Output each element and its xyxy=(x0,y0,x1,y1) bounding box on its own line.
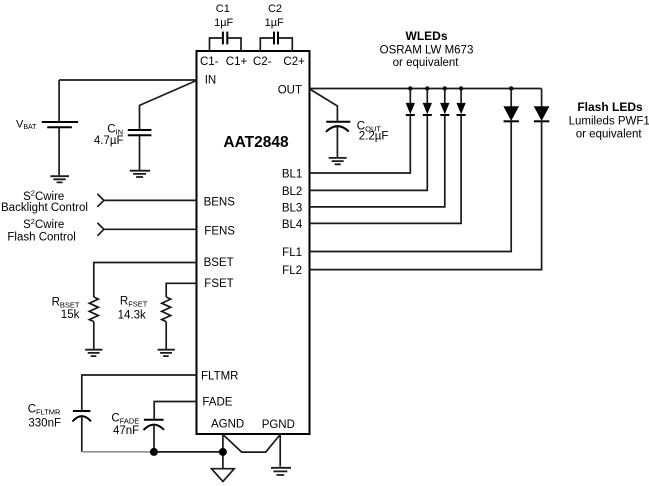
svg-text:C1-: C1- xyxy=(200,56,219,68)
junction node CFADE/AGND wire xyxy=(150,448,158,456)
svg-text:BSET: BSET xyxy=(204,257,234,269)
svg-text:C1+: C1+ xyxy=(226,56,248,68)
wire RBSET to ground xyxy=(93,322,95,349)
wire OUT rail xyxy=(310,88,542,90)
svg-text:FL1: FL1 xyxy=(282,247,302,259)
wire CFLTMR to junction (gray) xyxy=(82,451,154,453)
svg-text:C2-: C2- xyxy=(253,56,272,68)
ground signal triangle (AGND) xyxy=(212,469,235,482)
wire FADE to CFADE xyxy=(154,402,196,420)
capacitor CIN xyxy=(128,130,152,170)
resistor RFSET xyxy=(162,297,171,322)
svg-text:BL3: BL3 xyxy=(282,203,302,215)
label C2 value xyxy=(265,3,284,29)
svg-text:FADE: FADE xyxy=(202,396,232,408)
svg-text:or equivalent: or equivalent xyxy=(393,57,460,69)
svg-text:1µF: 1µF xyxy=(265,17,284,29)
label WLEDs heading xyxy=(380,29,474,69)
label COUT value xyxy=(357,120,389,142)
label Flash LEDs heading xyxy=(569,100,649,140)
input arrow FENS xyxy=(97,223,196,236)
ground (RFSET) xyxy=(158,350,175,356)
capacitor CFLTMR xyxy=(73,411,92,452)
svg-text:BL2: BL2 xyxy=(282,186,302,198)
flash LED D5 xyxy=(310,89,519,252)
svg-text:OSRAM LW M673: OSRAM LW M673 xyxy=(380,45,474,57)
WLED D4 xyxy=(310,89,466,224)
svg-text:S2Cwire: S2Cwire xyxy=(23,189,64,203)
WLED D3 xyxy=(310,89,450,207)
ground (RBSET) xyxy=(85,350,102,356)
label S2Cwire backlight xyxy=(1,189,88,215)
svg-text:PGND: PGND xyxy=(262,419,295,431)
svg-text:BL1: BL1 xyxy=(282,169,302,181)
wire OUT to COUT (diagonal) xyxy=(310,89,338,121)
svg-text:Flash LEDs: Flash LEDs xyxy=(577,100,643,114)
input arrow BENS xyxy=(97,194,196,207)
label S2Cwire flash xyxy=(7,217,75,244)
svg-text:4.7µF: 4.7µF xyxy=(94,135,124,147)
wire junction to AGND xyxy=(154,451,223,453)
wire BSET to RBSET xyxy=(94,263,197,298)
wire FSET to RFSET xyxy=(166,283,196,297)
svg-text:AAT2848: AAT2848 xyxy=(223,134,289,151)
svg-text:FLTMR: FLTMR xyxy=(201,370,238,382)
node on rail WLED1 xyxy=(408,86,412,90)
wire FLTMR to CFLTMR xyxy=(82,375,197,410)
wire IN to CIN (diagonal) xyxy=(140,81,197,130)
svg-text:BENS: BENS xyxy=(204,196,236,208)
junction node AGND xyxy=(219,448,227,456)
WLED D1 xyxy=(310,89,415,174)
label CIN value xyxy=(94,123,124,147)
wire RFSET to ground xyxy=(165,322,167,349)
resistor RBSET xyxy=(89,297,98,322)
node on rail flash LED1 xyxy=(509,86,513,90)
svg-text:OUT: OUT xyxy=(278,84,302,96)
svg-text:14.3k: 14.3k xyxy=(118,309,146,321)
ground (VBAT) xyxy=(50,176,69,182)
svg-text:C1: C1 xyxy=(216,3,230,15)
capacitor C1 xyxy=(210,32,242,51)
svg-text:2.2µF: 2.2µF xyxy=(359,131,389,143)
wire AGND down xyxy=(222,434,224,468)
svg-text:FENS: FENS xyxy=(204,225,235,237)
svg-text:IN: IN xyxy=(205,75,217,87)
battery VBAT xyxy=(42,80,78,175)
capacitor CFADE xyxy=(144,420,165,452)
ground (CIN) xyxy=(130,171,150,177)
wire AGND to PGND xyxy=(223,435,280,453)
capacitor C2 xyxy=(260,32,292,51)
svg-text:C2+: C2+ xyxy=(283,56,305,68)
label RBSET value xyxy=(52,296,80,321)
node on rail WLED3 xyxy=(443,86,447,90)
node on rail WLED2 xyxy=(425,86,429,90)
svg-text:or equivalent: or equivalent xyxy=(576,128,643,140)
wire PGND down xyxy=(279,434,281,467)
op-amp U1 AAT2848 IC body xyxy=(197,51,310,434)
label CFADE value xyxy=(111,412,139,437)
flash LED D6 xyxy=(310,89,550,270)
svg-text:WLEDs: WLEDs xyxy=(406,29,448,43)
ground (PGND) xyxy=(271,468,291,475)
wire VBAT rail to IN xyxy=(59,79,196,81)
svg-text:1µF: 1µF xyxy=(214,17,233,29)
svg-text:BL4: BL4 xyxy=(282,219,303,231)
svg-text:15k: 15k xyxy=(61,309,80,321)
svg-text:Flash Control: Flash Control xyxy=(7,232,75,244)
WLED D2 xyxy=(310,89,432,191)
svg-text:Lumileds PWF1: Lumileds PWF1 xyxy=(569,116,649,128)
svg-text:FL2: FL2 xyxy=(282,265,302,277)
svg-text:FSET: FSET xyxy=(204,278,233,290)
label CFLTMR value xyxy=(28,403,61,429)
ground (COUT) xyxy=(329,158,347,164)
svg-text:S2Cwire: S2Cwire xyxy=(23,217,64,231)
svg-text:330nF: 330nF xyxy=(28,417,61,429)
svg-text:Backlight Control: Backlight Control xyxy=(1,202,88,214)
svg-text:47nF: 47nF xyxy=(113,425,139,437)
capacitor COUT xyxy=(326,122,350,157)
label RFSET value xyxy=(118,296,148,322)
label C1 value xyxy=(214,3,233,29)
svg-text:AGND: AGND xyxy=(211,418,244,430)
node on rail WLED4 xyxy=(459,86,463,90)
svg-text:C2: C2 xyxy=(268,3,282,15)
